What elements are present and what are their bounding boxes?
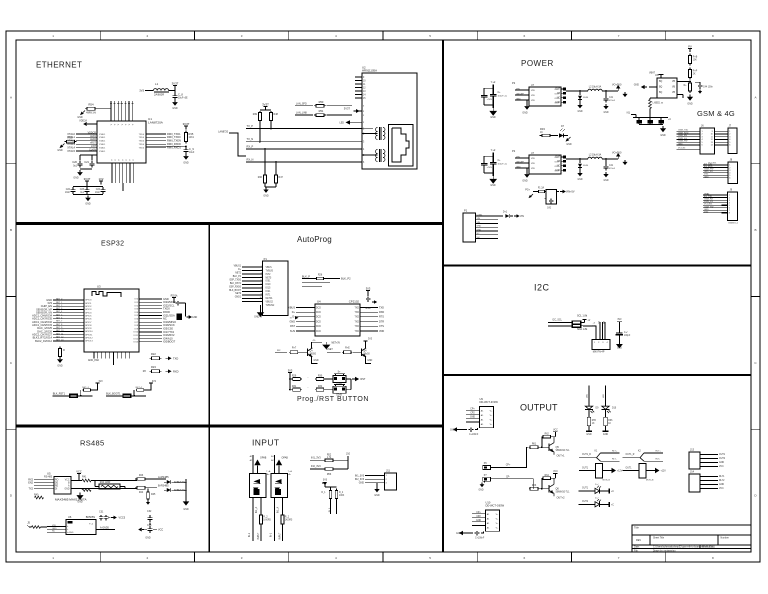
svg-text:RMII_TXD1: RMII_TXD1 <box>167 132 181 136</box>
resistor R21 EN pulldown <box>59 347 61 349</box>
svg-text:IO21: IO21 <box>266 291 272 293</box>
svg-text:GPIO2: GPIO2 <box>85 306 92 308</box>
svg-text:10uF: 10uF <box>95 192 101 194</box>
svg-text:IO8: IO8 <box>135 325 139 327</box>
svg-text:RLY-: RLY- <box>656 459 661 461</box>
svg-text:XTAL1: XTAL1 <box>99 146 106 149</box>
svg-text:XTAL1: XTAL1 <box>99 133 106 136</box>
svg-text:GPIO5: GPIO5 <box>85 315 92 317</box>
capacitor C44 <box>699 83 701 85</box>
svg-text:2K: 2K <box>693 73 696 75</box>
optocoupler OC2 internal transistor mark <box>275 479 282 484</box>
svg-text:GND: GND <box>490 117 496 119</box>
svg-text:R43: R43 <box>139 475 144 477</box>
svg-text:NET_10: NET_10 <box>56 330 64 332</box>
svg-text:IN2_3V3: IN2_3V3 <box>311 465 321 468</box>
relay driver K2 body <box>639 464 646 479</box>
svg-text:R41: R41 <box>82 477 87 479</box>
svg-text:VIN: VIN <box>531 168 535 170</box>
svg-text:GND: GND <box>477 229 482 231</box>
connector J9 wires <box>703 194 728 196</box>
transistor Q4 autoprog <box>360 349 362 356</box>
svg-text:R29: R29 <box>292 375 297 377</box>
svg-text:U5: U5 <box>47 472 51 476</box>
svg-text:VCC4G1: VCC4G1 <box>708 163 717 165</box>
TVS diode D5 <box>157 478 166 480</box>
catch diode D B <box>579 159 581 163</box>
series resistor OC2 <box>282 514 284 515</box>
svg-text:TXD0: TXD0 <box>139 144 145 146</box>
svg-text:D+: D+ <box>238 269 242 271</box>
svg-text:NET_0: NET_0 <box>56 299 63 301</box>
svg-text:A: A <box>10 95 13 99</box>
svg-text:IO1: IO1 <box>135 302 139 304</box>
svg-text:VIN: VIN <box>531 95 535 97</box>
svg-text:R48: R48 <box>274 114 279 116</box>
svg-text:SBWM10-TL1: SBWM10-TL1 <box>556 450 571 452</box>
power stub Q6 <box>553 472 557 474</box>
resistor R65 for D9 <box>588 416 590 417</box>
svg-text:DCD: DCD <box>316 321 321 323</box>
svg-text:VCC: VCC <box>553 429 558 431</box>
svg-text:C33: C33 <box>147 525 152 527</box>
svg-text:3V3: 3V3 <box>617 319 622 321</box>
svg-text:GND: GND <box>578 111 583 113</box>
svg-text:ON/OFF: ON/OFF <box>516 162 525 164</box>
svg-text:6: 6 <box>702 145 704 147</box>
svg-text:4%: 4% <box>313 340 316 342</box>
resistor R54 49R9 with gnd <box>85 108 87 110</box>
wire TVS common to gnd <box>172 481 187 483</box>
svg-text:NET+3V: NET+3V <box>332 343 341 345</box>
svg-text:RXD: RXD <box>379 311 384 314</box>
svg-text:+C: +C <box>611 504 614 506</box>
svg-text:P2: P2 <box>512 81 516 85</box>
svg-text:TVBUS2: TVBUS2 <box>266 305 275 307</box>
input left wire OC2 full height <box>274 455 276 474</box>
svg-text:LED: LED <box>603 394 605 399</box>
svg-text:10: 10 <box>711 134 714 136</box>
svg-text:VIN+5V: VIN+5V <box>566 190 575 193</box>
gnd C45 <box>618 335 620 342</box>
svg-text:3V3: 3V3 <box>368 339 373 341</box>
svg-text:10uF: 10uF <box>65 192 71 194</box>
svg-text:2: 2 <box>147 34 149 38</box>
svg-text:NET_13: NET_13 <box>56 340 64 342</box>
svg-text:2: 2 <box>702 134 704 136</box>
svg-text:V: V <box>115 159 117 161</box>
svg-text:C31: C31 <box>99 512 104 514</box>
title block row lines <box>632 534 751 536</box>
svg-text:15: 15 <box>363 98 366 100</box>
svg-text:10: 10 <box>363 80 366 82</box>
svg-text:R54: R54 <box>88 103 94 107</box>
svg-text:GND_PAD: GND_PAD <box>88 359 99 362</box>
svg-text:Q4: Q4 <box>363 351 367 353</box>
gnd terminals <box>484 481 486 482</box>
svg-text:OUT1: OUT1 <box>582 488 589 490</box>
svg-text:VIN: VIN <box>52 525 56 527</box>
svg-text:R_2: R_2 <box>285 517 290 519</box>
resistor R63 base Q6 <box>529 488 530 490</box>
svg-text:3V3T: 3V3T <box>172 82 179 86</box>
net arrow RXD0 <box>165 370 168 372</box>
svg-text:V: V <box>133 159 135 161</box>
svg-text:1.7k: 1.7k <box>327 457 332 459</box>
svg-text:10uF+3E: 10uF+3E <box>178 97 188 99</box>
svg-text:14: 14 <box>711 145 714 147</box>
svg-text:LAN_SPD: LAN_SPD <box>296 102 307 105</box>
svg-text:NC: NC <box>52 531 56 533</box>
svg-text:OUT2: OUT2 <box>582 501 589 503</box>
svg-text:Q5: Q5 <box>556 446 560 449</box>
svg-text:VBAT: VBAT <box>704 193 710 196</box>
svg-text:B: B <box>68 483 70 485</box>
svg-text:3: 3 <box>241 556 243 560</box>
svg-text:IN2_3V3: IN2_3V3 <box>355 479 365 481</box>
svg-text:470uF: 470uF <box>609 168 616 170</box>
gnd battery caps <box>662 126 664 128</box>
svg-text:OUT1_R: OUT1_R <box>582 454 591 456</box>
svg-text:3V3: 3V3 <box>366 287 371 291</box>
svg-text:Q6: Q6 <box>556 488 560 491</box>
svg-text:V: V <box>122 159 124 161</box>
connector J8 wires <box>703 164 728 166</box>
svg-text:DD-WCT-3V3W: DD-WCT-3V3W <box>480 400 499 404</box>
resistor REN <box>175 302 177 304</box>
svg-text:D9: D9 <box>596 408 600 410</box>
svg-text:+C: +C <box>668 119 671 121</box>
svg-text:SUS: SUS <box>290 330 295 333</box>
svg-text:CP+: CP+ <box>506 465 511 467</box>
svg-text:VCC: VCC <box>76 470 82 474</box>
svg-text:NET+1: NET+1 <box>82 387 89 389</box>
svg-text:1K: 1K <box>540 132 543 134</box>
svg-text:CP+: CP+ <box>470 409 475 411</box>
svg-text:C21: C21 <box>84 160 89 164</box>
ESP32 right pins <box>139 298 162 300</box>
svg-text:A1: A1 <box>481 410 484 413</box>
ESP32 antenna meander <box>92 292 121 298</box>
svg-text:J14: J14 <box>690 471 695 474</box>
RJ45 transformer coils lower <box>379 149 381 162</box>
svg-text:2: 2 <box>598 342 600 344</box>
svg-text:x: x <box>363 106 365 108</box>
U8 left pin gnd arrow <box>649 86 657 88</box>
svg-text:DE: DE <box>55 483 59 485</box>
svg-text:NET_12: NET_12 <box>56 336 64 338</box>
strap riser and pullup resistor BLK_BOOT1 <box>133 390 135 396</box>
output cap A <box>605 91 607 96</box>
svg-text:V: V <box>115 123 117 125</box>
svg-text:CON1: CON1 <box>477 214 484 216</box>
svg-text:12: 12 <box>363 87 366 89</box>
buck IC A left pins <box>515 89 529 91</box>
svg-text:V: V <box>118 123 120 125</box>
section divider left middle y=426 <box>16 425 443 428</box>
svg-text:GND: GND <box>555 170 560 172</box>
svg-text:INPUT: INPUT <box>258 532 260 539</box>
svg-text:IO11: IO11 <box>134 335 139 337</box>
filter cap C42 <box>550 198 552 200</box>
svg-text:LED2: LED2 <box>90 139 97 141</box>
title block outline <box>632 525 751 552</box>
svg-text:3V3T: 3V3T <box>183 122 190 126</box>
svg-text:1: 1 <box>594 342 596 344</box>
RJ45 jack opening outline <box>389 125 414 167</box>
svg-text:Q+: Q+ <box>310 351 314 353</box>
svg-text:NET_4: NET_4 <box>56 311 63 313</box>
input cap left plates A <box>481 94 487 96</box>
svg-text:J10: J10 <box>346 453 351 456</box>
svg-text:OUT+1: OUT+1 <box>557 455 566 458</box>
svg-text:R2/1k: R2/1k <box>171 294 178 298</box>
gnd arrow left of caps <box>142 529 144 531</box>
svg-text:C32: C32 <box>147 511 152 513</box>
svg-text:P6: P6 <box>484 463 488 465</box>
join wire right of switches <box>346 378 351 380</box>
collector riser and resistor R62 Q5 <box>541 437 543 448</box>
gnd TVS <box>185 499 187 501</box>
svg-text:IO12: IO12 <box>133 338 138 340</box>
svg-text:L2 33uH 3A: L2 33uH 3A <box>589 86 602 89</box>
svg-text:GND: GND <box>719 484 724 486</box>
svg-text:XTAL5: XTAL5 <box>67 149 75 153</box>
svg-text:1K: 1K <box>592 423 595 425</box>
svg-text:SMBJ6.5CA: SMBJ6.5CA <box>174 489 187 492</box>
gnd U5 area <box>79 493 81 496</box>
svg-text:A1: A1 <box>481 419 484 422</box>
svg-text:1: 1 <box>52 556 54 560</box>
wires J6 to J7 <box>715 130 729 132</box>
svg-text:File:: File: <box>634 550 639 552</box>
svg-text:IN-1: IN-1 <box>271 532 273 537</box>
svg-text:2: 2 <box>147 556 149 560</box>
svg-text:VO+5V0: VO+5V0 <box>612 152 622 155</box>
collector wire Q6 <box>553 478 555 484</box>
title block column dividers <box>649 535 651 545</box>
svg-text:XTAL1: XTAL1 <box>99 136 106 139</box>
svg-text:RMII_TXD0: RMII_TXD0 <box>167 135 181 139</box>
prog branch wire <box>290 378 293 380</box>
svg-text:V: V <box>125 123 127 125</box>
capacitor C31 pair with VCC arrow <box>100 515 102 517</box>
U8 top-left pin VBAT <box>660 75 662 79</box>
svg-text:BLK_BOOT1: BLK_BOOT1 <box>106 392 121 395</box>
svg-text:GPIO9: GPIO9 <box>85 328 92 330</box>
svg-text:NET_5: NET_5 <box>56 314 63 316</box>
svg-text:D+/: D+/ <box>595 497 599 499</box>
svg-text:GND: GND <box>359 483 365 485</box>
svg-text:DCD: DCD <box>316 307 321 309</box>
strap series resistor BLK_BOOT1 <box>123 394 131 397</box>
svg-text:NET01: NET01 <box>266 298 274 300</box>
svg-text:IN-1: IN-1 <box>249 532 251 537</box>
svg-text:GND: GND <box>314 360 319 362</box>
svg-text:GPIO4: GPIO4 <box>85 312 92 314</box>
svg-text:R32: R32 <box>318 386 323 388</box>
svg-text:IN1_3V3: IN1_3V3 <box>311 457 321 460</box>
connector J9 bold stub wires <box>722 204 728 206</box>
svg-text:3V3: 3V3 <box>288 369 293 373</box>
svg-text:GPIO3: GPIO3 <box>85 309 92 311</box>
svg-text:TXD0: TXD0 <box>139 147 145 149</box>
svg-text:V4G: V4G <box>704 211 709 213</box>
svg-text:NET_11: NET_11 <box>56 333 64 335</box>
svg-text:VIN: VIN <box>516 157 520 159</box>
svg-text:BLK_BOOT: BLK_BOOT <box>229 290 241 292</box>
svg-text:TXD: TXD <box>355 307 360 309</box>
op IC U1 LAN8720A body <box>97 121 146 163</box>
gnd output cap B <box>605 172 607 174</box>
IC U1 bottom pin bus <box>111 163 113 183</box>
svg-text:A-GND5: A-GND5 <box>100 526 110 529</box>
svg-text:FB: FB <box>557 161 560 163</box>
svg-text:NET+2: NET+2 <box>136 387 143 389</box>
svg-text:VIN: VIN <box>477 222 481 224</box>
svg-text:5: 5 <box>429 34 431 38</box>
svg-text:IO10: IO10 <box>133 332 138 334</box>
svg-text:XTAL1: XTAL1 <box>99 150 106 153</box>
svg-text:0u1: 0u1 <box>73 165 78 167</box>
svg-text:J6: J6 <box>701 125 704 128</box>
svg-text:Y+2: Y+2 <box>491 148 496 152</box>
emitter out Q6 <box>553 493 555 496</box>
connector J6 left wires <box>677 130 701 132</box>
svg-text:NET_1: NET_1 <box>56 302 63 304</box>
termination resistor R42 long box <box>99 484 120 489</box>
strap wire BLK_BOOT1 <box>106 395 146 397</box>
svg-text:4: 4 <box>729 139 731 141</box>
gnd input cap B <box>492 176 494 179</box>
svg-text:IN1_A: IN1_A <box>277 506 280 513</box>
resistor R66 for D10 <box>605 416 607 417</box>
svg-text:2: 2 <box>386 479 388 481</box>
capacitor C9 10uF <box>185 147 187 150</box>
wire IC RBIAS to R35 <box>146 145 186 147</box>
svg-text:TXD: TXD <box>379 306 384 309</box>
svg-text:R+P: R+P <box>693 71 698 73</box>
output cap B <box>605 159 607 164</box>
resistor R47 RX_N termination <box>275 174 277 176</box>
svg-text:C41: C41 <box>609 97 614 99</box>
svg-text:MOS+B: MOS+B <box>603 479 611 481</box>
svg-text:R63: R63 <box>532 485 537 487</box>
svg-text:LAN8720A: LAN8720A <box>148 121 164 125</box>
gnd for C9 <box>185 154 187 156</box>
svg-text:GND: GND <box>490 185 496 187</box>
svg-text:x: x <box>363 122 365 124</box>
svg-text:IO9: IO9 <box>135 328 139 330</box>
svg-text:GND: GND <box>516 167 521 169</box>
net arrow TXD0 <box>165 357 168 359</box>
svg-text:GND: GND <box>172 108 178 110</box>
i2c pullup power stub <box>583 319 587 321</box>
svg-text:GPIO11: GPIO11 <box>85 334 93 336</box>
power 3V3T right of IC <box>184 125 188 127</box>
svg-text:NET_3: NET_3 <box>56 308 63 310</box>
svg-text:R61: R61 <box>532 444 537 446</box>
svg-text:Prog./RST BUTTON: Prog./RST BUTTON <box>297 396 369 403</box>
VCC stub right of U5 <box>77 473 81 475</box>
svg-text:1: 1 <box>52 34 54 38</box>
svg-text:Title: Title <box>634 526 639 530</box>
svg-text:GND: GND <box>57 150 63 152</box>
svg-text:TXD: TXD <box>355 321 360 323</box>
Q3 emitter gnd <box>312 357 318 364</box>
top margin band tick dividers <box>99 31 101 40</box>
svg-text:13: 13 <box>363 91 366 93</box>
svg-text:DCD: DCD <box>316 326 321 328</box>
svg-text:K1: K1 <box>595 451 598 453</box>
svg-text:R40: R40 <box>34 495 39 497</box>
svg-text:IO5: IO5 <box>135 315 139 317</box>
filter output arrow <box>557 191 560 193</box>
svg-text:INPUT: INPUT <box>252 438 280 448</box>
capacitor C45 i2c power stub <box>617 321 622 323</box>
svg-text:GND: GND <box>77 117 83 119</box>
svg-text:3: 3 <box>702 136 704 138</box>
svg-text:A1: A1 <box>487 527 490 530</box>
svg-text:B: B <box>754 228 756 232</box>
svg-text:CP-: CP- <box>506 476 510 478</box>
svg-text:C41: C41 <box>609 165 614 167</box>
svg-text:14: 14 <box>363 94 366 96</box>
svg-text:V+: V+ <box>490 420 493 422</box>
gnd small A <box>624 92 626 94</box>
svg-text:OUT1_R: OUT1_R <box>626 454 635 456</box>
svg-text:D: D <box>10 494 13 498</box>
svg-text:1: 1 <box>386 475 388 477</box>
svg-text:TX_P: TX_P <box>247 124 254 128</box>
svg-text:V: V <box>133 123 135 125</box>
power 3V3T over TX pair resistors <box>264 106 268 108</box>
svg-text:V+: V+ <box>490 411 493 413</box>
connector J4 extra low pin <box>242 301 263 303</box>
svg-text:D7: D7 <box>561 126 565 128</box>
diode D8 on CN1 line <box>498 215 503 217</box>
svg-text:INT1: INT1 <box>266 295 272 297</box>
wire U8 to divider <box>677 81 690 83</box>
input cap center plates A <box>490 93 497 95</box>
svg-text:IO01: IO01 <box>266 281 272 283</box>
svg-text:-GND: -GND <box>68 532 74 534</box>
svg-text:VBUS: VBUS <box>288 306 295 309</box>
svg-text:8: 8 <box>729 213 731 215</box>
svg-text:Sheet Title: Sheet Title <box>653 536 665 539</box>
svg-text:V: V <box>129 123 131 125</box>
svg-text:LED: LED <box>587 394 589 399</box>
svg-text:GND: GND <box>374 495 380 497</box>
svg-text:RS-485: RS-485 <box>44 477 53 479</box>
input left wire OC1 full height <box>252 455 254 474</box>
svg-text:R35: R35 <box>189 132 194 136</box>
svg-text:N1: N1 <box>627 111 631 115</box>
svg-text:K2: K2 <box>638 451 641 453</box>
svg-text:T+A: T+A <box>288 470 293 473</box>
svg-text:OUT1: OUT1 <box>719 454 726 456</box>
optocoupler U10 pins <box>472 513 486 515</box>
gnd arrow U10 <box>463 532 466 534</box>
svg-text:J5: J5 <box>27 521 30 525</box>
power arrow OC2 <box>276 460 282 466</box>
svg-text:GND: GND <box>586 434 592 436</box>
svg-text:PG+: PG+ <box>525 190 530 192</box>
svg-text:XTAL4: XTAL4 <box>67 145 75 149</box>
gnd arrow EN net <box>187 316 189 318</box>
svg-text:GND: GND <box>52 528 57 530</box>
svg-text:V: V <box>111 123 113 125</box>
